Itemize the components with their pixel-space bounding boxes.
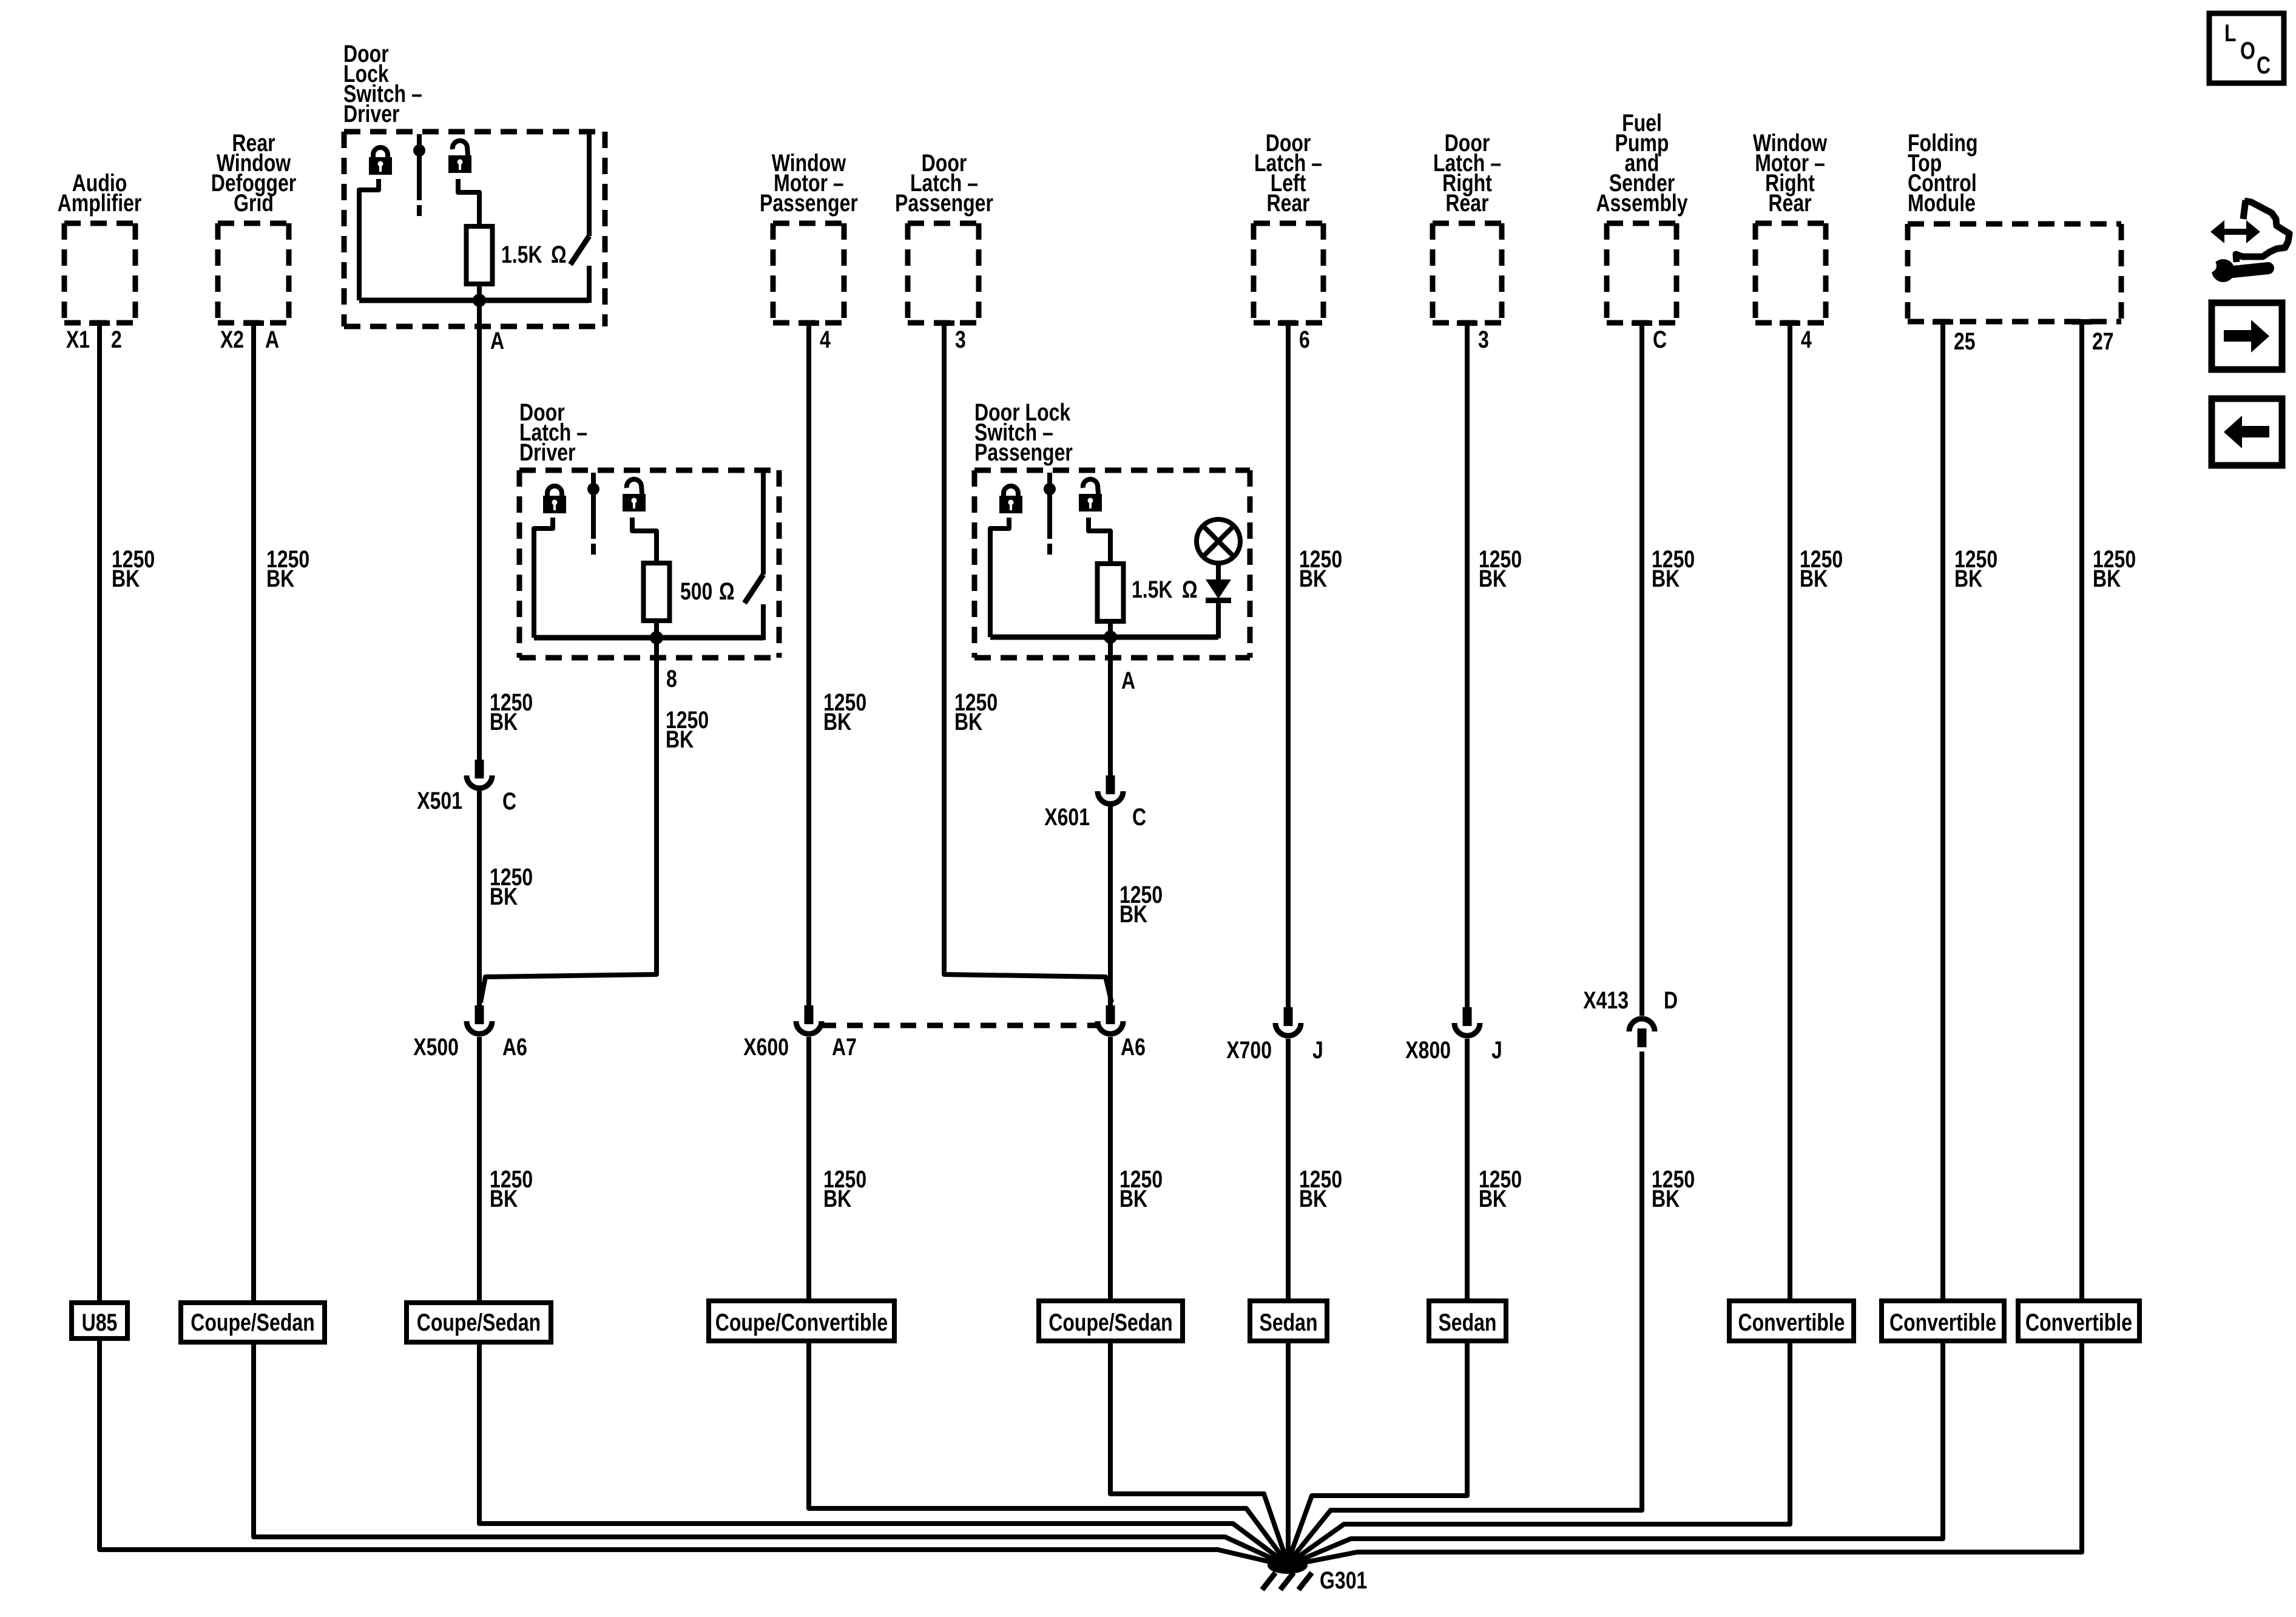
svg-text:Coupe/Sedan: Coupe/Sedan bbox=[417, 1309, 541, 1336]
rail latch driver bbox=[534, 635, 763, 641]
component box Folding Top Control Module bbox=[1908, 221, 2121, 227]
wire door lock switch passenger pin A to X601 bbox=[1108, 637, 1113, 775]
door lock switch passenger box bbox=[974, 468, 1250, 473]
svg-text:Ω: Ω bbox=[551, 241, 567, 268]
option box Sedan bbox=[1250, 1301, 1327, 1341]
junction node pin A passenger bbox=[1104, 630, 1117, 644]
svg-text:BK: BK bbox=[954, 708, 982, 735]
wire X500 to ground bbox=[479, 1037, 1284, 1562]
component box Audio Amplifier bbox=[64, 221, 135, 226]
wire lock contact to rail bbox=[534, 518, 553, 638]
option box Coupe/Convertible bbox=[709, 1301, 894, 1341]
junction node pin 8 bbox=[650, 631, 663, 644]
wire door lock switch driver pin A to X501 bbox=[477, 300, 482, 760]
connector X601 bbox=[1106, 775, 1115, 794]
svg-text:Driver: Driver bbox=[343, 100, 400, 127]
double arrow icon bbox=[2210, 220, 2260, 243]
svg-text:BK: BK bbox=[1479, 565, 1507, 592]
svg-text:8: 8 bbox=[666, 665, 677, 692]
svg-text:X501: X501 bbox=[417, 787, 462, 814]
indicator lamp bbox=[1197, 519, 1240, 563]
wire audio amplifier X1-2 to ground bbox=[100, 325, 1280, 1564]
svg-text:A: A bbox=[265, 326, 279, 353]
lamp to diode wire bbox=[1216, 562, 1221, 581]
svg-text:BK: BK bbox=[666, 726, 694, 753]
wire A6 to ground bbox=[1110, 1037, 1286, 1559]
connector X501 bbox=[475, 760, 484, 778]
component box Rear Window Defogger Grid bbox=[218, 221, 289, 226]
vehicle icon bbox=[2236, 201, 2289, 262]
svg-text:3: 3 bbox=[1478, 326, 1489, 353]
svg-text:L: L bbox=[2224, 19, 2237, 47]
resistor R 1.5K driver bbox=[467, 226, 493, 284]
wire X700 to ground (straight) bbox=[1286, 1039, 1291, 1567]
svg-text:BK: BK bbox=[1299, 565, 1327, 592]
svg-text:6: 6 bbox=[1299, 326, 1310, 353]
resistor R 500 ohm bbox=[644, 563, 670, 621]
door ajar switch contact latch driver bbox=[761, 473, 766, 575]
wire window motor passenger pin 4 to X600 bbox=[806, 325, 811, 1005]
junction node A driver bbox=[473, 294, 486, 307]
svg-text:X601: X601 bbox=[1044, 803, 1090, 831]
padlock locked icon bbox=[1004, 486, 1018, 497]
svg-text:Rear: Rear bbox=[1768, 189, 1811, 217]
rail driver switch bbox=[359, 298, 589, 303]
svg-text:C: C bbox=[1132, 803, 1146, 831]
svg-text:X800: X800 bbox=[1405, 1036, 1451, 1064]
svg-text:J: J bbox=[1312, 1036, 1323, 1064]
svg-text:Sedan: Sedan bbox=[1438, 1309, 1496, 1336]
svg-text:2: 2 bbox=[111, 326, 122, 353]
wire unlock contact to resistor bbox=[458, 179, 479, 226]
svg-text:25: 25 bbox=[1954, 328, 1976, 355]
connector X500 bbox=[475, 1005, 484, 1024]
svg-text:BK: BK bbox=[1652, 1185, 1680, 1212]
switch common post passenger bbox=[1047, 473, 1052, 539]
svg-text:C: C bbox=[1653, 326, 1667, 353]
wire unlock contact to resistor bbox=[1089, 518, 1110, 564]
forward arrow box bbox=[2212, 303, 2282, 370]
svg-text:BK: BK bbox=[1119, 1185, 1147, 1212]
wire window motor right rear pin 4 to ground bbox=[1291, 325, 1790, 1562]
wire door latch left rear pin 6 to X700 bbox=[1286, 325, 1291, 1007]
svg-text:BK: BK bbox=[1299, 1185, 1327, 1212]
svg-text:A: A bbox=[490, 327, 504, 354]
svg-text:Rear: Rear bbox=[1266, 189, 1309, 217]
option box Coupe/Sedan bbox=[1039, 1301, 1183, 1341]
padlock unlocked icon bbox=[453, 141, 468, 155]
LOC legend box bbox=[2209, 13, 2284, 83]
wire resistor to junction bbox=[654, 621, 659, 640]
svg-text:BK: BK bbox=[823, 1185, 851, 1212]
door latch driver box bbox=[519, 468, 779, 473]
svg-text:Convertible: Convertible bbox=[2025, 1309, 2132, 1336]
padlock unlocked icon bbox=[1083, 479, 1098, 494]
option box Convertible bbox=[1882, 1301, 2004, 1341]
svg-text:27: 27 bbox=[2092, 328, 2114, 355]
svg-text:D: D bbox=[1664, 987, 1678, 1014]
component box Door Latch - Left Rear bbox=[1254, 221, 1323, 226]
component box Window Motor - Right Rear bbox=[1755, 221, 1826, 226]
component box Window Motor - Passenger bbox=[773, 221, 844, 226]
svg-text:4: 4 bbox=[820, 326, 831, 353]
svg-text:BK: BK bbox=[1954, 565, 1982, 592]
svg-text:BK: BK bbox=[1119, 900, 1147, 928]
wire folding top module pin 27 to ground bbox=[1295, 324, 2082, 1564]
dashed option link X600 to A6 bbox=[820, 1023, 1097, 1028]
svg-text:C: C bbox=[502, 788, 516, 815]
padlock locked icon bbox=[373, 147, 388, 158]
svg-text:BK: BK bbox=[266, 565, 294, 592]
option box Sedan bbox=[1429, 1301, 1506, 1341]
wire X501 to X500 bbox=[477, 789, 482, 1005]
option box U85 bbox=[72, 1303, 127, 1338]
svg-text:Ω: Ω bbox=[719, 578, 735, 605]
component box Door Latch - Passenger bbox=[908, 221, 979, 226]
connector X413 bbox=[1629, 1019, 1655, 1031]
padlock locked icon bbox=[547, 486, 562, 497]
svg-text:A6: A6 bbox=[1121, 1033, 1146, 1061]
svg-text:Passenger: Passenger bbox=[760, 189, 858, 217]
padlock unlocked icon bbox=[627, 479, 642, 494]
svg-text:BK: BK bbox=[490, 883, 518, 910]
option box Convertible bbox=[1729, 1301, 1854, 1341]
svg-text:Passenger: Passenger bbox=[974, 439, 1073, 466]
svg-text:A7: A7 bbox=[832, 1033, 857, 1061]
svg-text:4: 4 bbox=[1801, 326, 1812, 353]
resistor R 1.5K passenger bbox=[1098, 564, 1124, 621]
wire X600 to ground bbox=[809, 1037, 1285, 1561]
svg-text:Rear: Rear bbox=[1445, 189, 1488, 217]
svg-text:Coupe/Convertible: Coupe/Convertible bbox=[715, 1309, 888, 1336]
svg-text:C: C bbox=[2257, 52, 2271, 79]
ground hatch bbox=[1262, 1573, 1275, 1590]
svg-text:BK: BK bbox=[1652, 565, 1680, 592]
wire folding top module pin 25 to ground bbox=[1293, 324, 1943, 1563]
rail passenger switch bbox=[990, 635, 1218, 640]
wire door latch driver pin 8 to junction above X500 bbox=[481, 641, 657, 1002]
svg-text:G301: G301 bbox=[1320, 1567, 1367, 1594]
svg-text:Sedan: Sedan bbox=[1260, 1309, 1318, 1336]
svg-text:Ω: Ω bbox=[1182, 576, 1198, 603]
svg-text:Convertible: Convertible bbox=[1889, 1309, 1996, 1336]
svg-text:Grid: Grid bbox=[234, 189, 274, 217]
back arrow box bbox=[2212, 399, 2282, 465]
svg-text:Convertible: Convertible bbox=[1738, 1309, 1845, 1336]
svg-text:O: O bbox=[2240, 37, 2255, 64]
wire X413 to ground bbox=[1290, 1052, 1642, 1561]
diode to rail wire bbox=[1216, 602, 1221, 638]
wire door latch passenger pin 3 to junction above A6 bbox=[944, 325, 1112, 1002]
svg-text:Coupe/Sedan: Coupe/Sedan bbox=[1048, 1309, 1172, 1336]
wire X601 to A6 bbox=[1108, 805, 1113, 1005]
svg-text:BK: BK bbox=[112, 565, 140, 592]
svg-text:X600: X600 bbox=[743, 1033, 789, 1061]
switch common post latch driver bbox=[591, 473, 596, 539]
svg-text:3: 3 bbox=[955, 326, 966, 353]
svg-text:X1: X1 bbox=[66, 326, 90, 353]
connector X700 bbox=[1284, 1007, 1293, 1026]
component box Fuel Pump and Sender Assembly bbox=[1607, 221, 1676, 226]
switch common post driver bbox=[417, 134, 422, 200]
svg-text:X700: X700 bbox=[1226, 1036, 1272, 1064]
svg-text:U85: U85 bbox=[82, 1309, 118, 1336]
svg-text:Module: Module bbox=[1908, 189, 1976, 217]
wrench icon bbox=[2227, 268, 2268, 272]
door lock switch driver box bbox=[344, 129, 605, 135]
option box Coupe/Sedan bbox=[181, 1303, 325, 1342]
svg-text:Driver: Driver bbox=[519, 439, 576, 466]
wire lock contact to rail bbox=[990, 518, 1009, 637]
svg-text:BK: BK bbox=[2093, 565, 2121, 592]
svg-text:1.5K: 1.5K bbox=[1132, 576, 1173, 603]
wire resistor to junction bbox=[1108, 621, 1113, 640]
svg-text:BK: BK bbox=[1479, 1185, 1507, 1212]
wire resistor to junction bbox=[477, 284, 482, 303]
svg-text:BK: BK bbox=[1800, 565, 1828, 592]
svg-text:X500: X500 bbox=[413, 1033, 459, 1061]
svg-text:X413: X413 bbox=[1583, 987, 1629, 1014]
svg-text:1.5K: 1.5K bbox=[501, 241, 542, 268]
ground G301 splice bbox=[1268, 1557, 1308, 1574]
wire fuel pump C to X413 bbox=[1639, 325, 1644, 1016]
connector X800 bbox=[1463, 1007, 1472, 1026]
option box Coupe/Sedan bbox=[407, 1303, 551, 1342]
wire X800 to ground bbox=[1289, 1039, 1467, 1559]
svg-text:Amplifier: Amplifier bbox=[58, 189, 142, 217]
wire rear window defogger X2-A to ground bbox=[254, 325, 1282, 1563]
wire lock contact to rail bbox=[359, 179, 379, 300]
wire door latch right rear pin 3 to X800 bbox=[1465, 325, 1470, 1007]
connector A6 passenger bbox=[1106, 1005, 1115, 1024]
svg-text:BK: BK bbox=[490, 708, 518, 735]
door ajar switch contact driver bbox=[587, 134, 592, 236]
diode D1 bbox=[1206, 579, 1231, 599]
component box Door Latch - Right Rear bbox=[1433, 221, 1502, 226]
svg-text:J: J bbox=[1491, 1036, 1502, 1064]
svg-text:BK: BK bbox=[490, 1185, 518, 1212]
connector X600 bbox=[805, 1005, 814, 1024]
wire unlock contact to resistor bbox=[632, 518, 657, 563]
svg-text:X2: X2 bbox=[220, 326, 244, 353]
svg-text:Assembly: Assembly bbox=[1596, 189, 1687, 217]
svg-text:BK: BK bbox=[823, 708, 851, 735]
svg-text:500: 500 bbox=[680, 578, 712, 605]
svg-text:A: A bbox=[1121, 667, 1135, 694]
svg-text:Coupe/Sedan: Coupe/Sedan bbox=[191, 1309, 314, 1336]
option box Convertible bbox=[2018, 1301, 2139, 1341]
svg-text:Passenger: Passenger bbox=[895, 189, 993, 217]
svg-text:A6: A6 bbox=[502, 1033, 527, 1061]
